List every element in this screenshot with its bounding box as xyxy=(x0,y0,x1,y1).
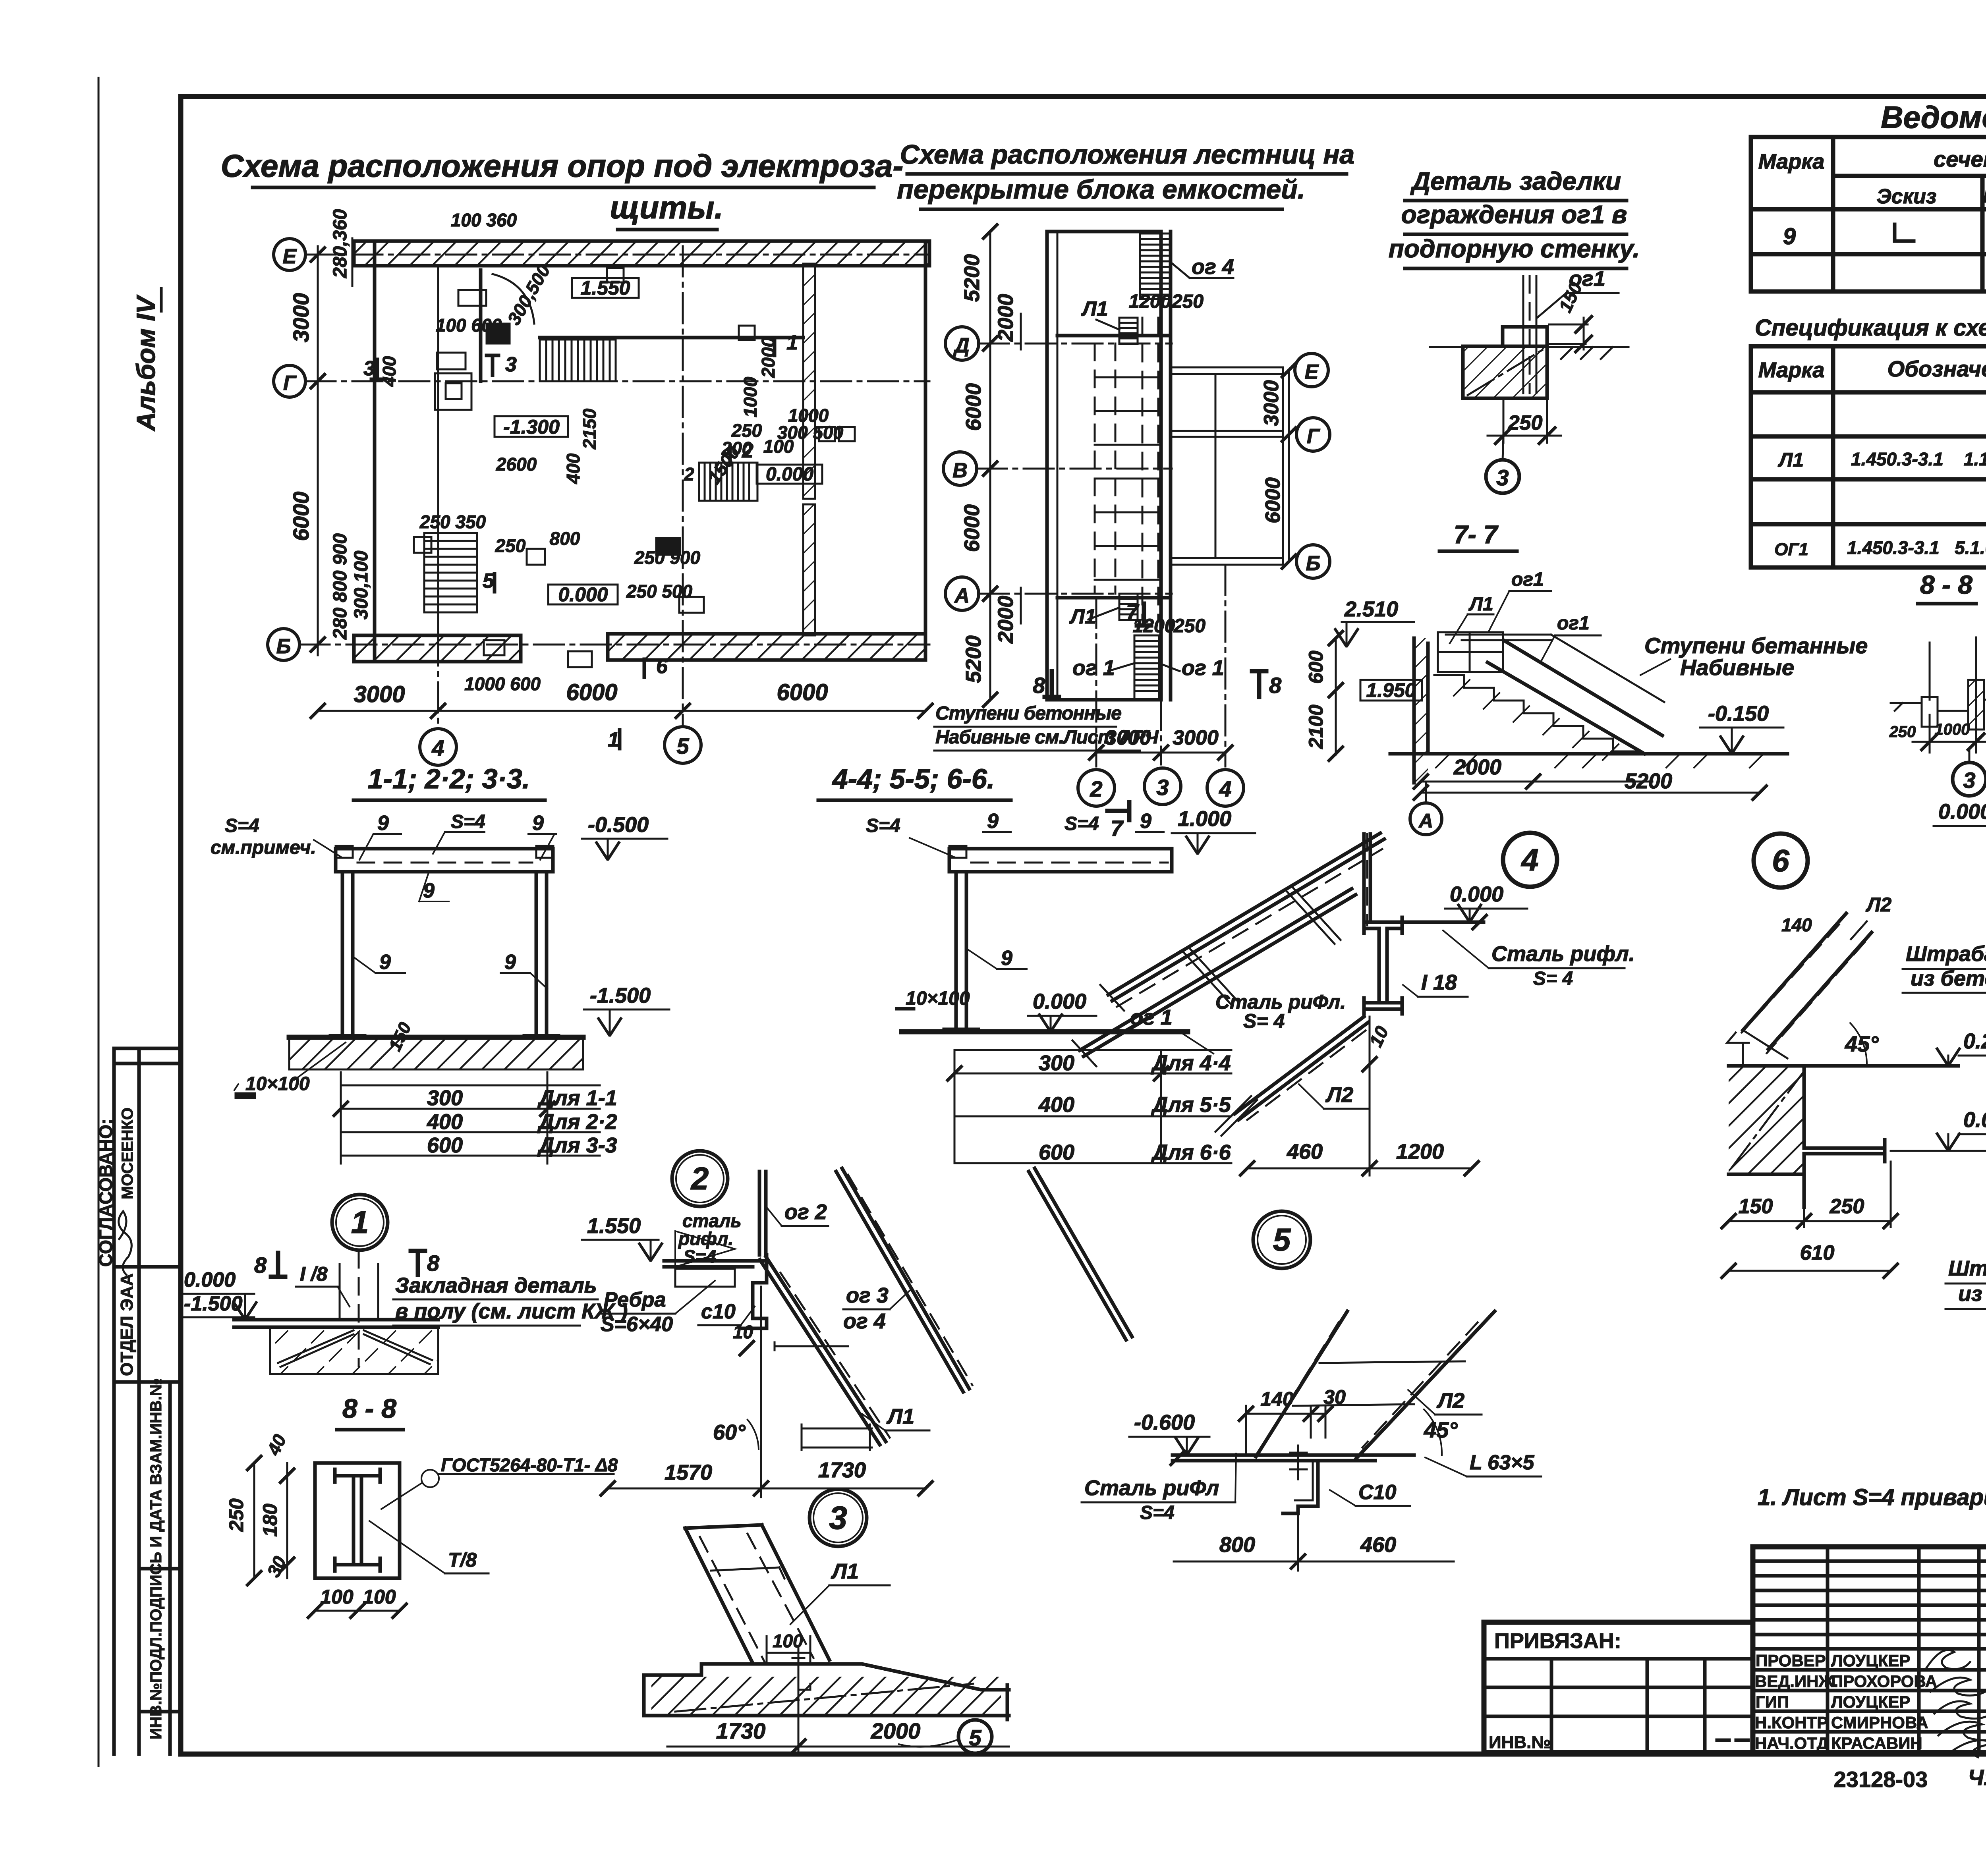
svg-text:Для 4·4: Для 4·4 xyxy=(1151,1051,1231,1075)
section 7-7 bottom dims xyxy=(1413,755,1768,801)
level box 0.000 (right) xyxy=(757,465,822,484)
svg-text:щиты.: щиты. xyxy=(610,190,723,225)
svg-text:600: 600 xyxy=(1305,650,1327,684)
portal frame 2 xyxy=(949,849,1172,1027)
sidebar signature squiggle xyxy=(119,1211,132,1275)
grid bubble Е xyxy=(274,239,305,270)
plan bottom wall right segment xyxy=(608,634,925,660)
section flag 8 left xyxy=(1045,671,1059,697)
anchor legs xyxy=(278,1330,432,1367)
svg-text:5200: 5200 xyxy=(960,254,984,302)
stair stringers xyxy=(1488,640,1662,754)
svg-text:Л1: Л1 xyxy=(1468,594,1493,615)
svg-text:100: 100 xyxy=(320,1586,354,1608)
svg-text:0.200: 0.200 xyxy=(1963,1029,1986,1053)
svg-text:250: 250 xyxy=(495,535,526,556)
left vertical dim 2100 600 xyxy=(1305,630,1344,762)
svg-text:2: 2 xyxy=(684,464,694,484)
ground band hatched xyxy=(289,1038,583,1069)
svg-text:3: 3 xyxy=(1156,775,1169,800)
svg-text:3000: 3000 xyxy=(1173,726,1219,749)
svg-text:ог 3: ог 3 xyxy=(846,1283,889,1307)
floor line right of post xyxy=(1402,921,1484,924)
svg-text:800: 800 xyxy=(1219,1533,1255,1557)
svg-text:9: 9 xyxy=(377,812,389,835)
svg-text:1: 1 xyxy=(351,1204,369,1240)
svg-text:250 500: 250 500 xyxy=(626,581,693,602)
big railing diagonals ог2 ог3 ог4 xyxy=(836,1168,969,1392)
grid bubble Д xyxy=(945,327,979,360)
svg-text:S= 4: S= 4 xyxy=(1243,1010,1285,1032)
svg-text:ИНВ.№: ИНВ.№ xyxy=(1489,1733,1551,1752)
I-beam И18 xyxy=(1364,917,1402,1014)
svg-text:0.000: 0.000 xyxy=(558,583,608,606)
svg-text:S=4: S=4 xyxy=(225,815,259,836)
node circle 4 (large) xyxy=(1503,833,1557,887)
plan tread rungs xyxy=(1095,377,1158,580)
svg-text:ПРИВЯЗАН:: ПРИВЯЗАН: xyxy=(1494,1629,1621,1653)
plan grid bubble 5 xyxy=(665,727,701,763)
svg-text:I /8: I /8 xyxy=(300,1263,328,1285)
svg-text:5200: 5200 xyxy=(1625,769,1672,793)
signatures squiggles xyxy=(1926,1650,1986,1757)
svg-text:30: 30 xyxy=(1323,1386,1346,1408)
pedestal xyxy=(1503,327,1547,346)
top stair ог4 treads xyxy=(1140,234,1171,299)
svg-text:Е: Е xyxy=(283,245,297,268)
vertical axis line xyxy=(760,1287,762,1497)
svg-text:610: 610 xyxy=(1800,1241,1835,1264)
section flag 8 right xyxy=(1252,671,1266,697)
dims left: 40 250 180 30 xyxy=(225,1431,295,1586)
svg-text:Н.КОНТР: Н.КОНТР xyxy=(1755,1713,1828,1732)
svg-text:Б: Б xyxy=(1306,552,1321,575)
svg-text:Схема расположения опор под: Схема расположения опор под электроза- xyxy=(221,148,904,183)
landing lines xyxy=(1057,336,1171,598)
stair plan inner vertical xyxy=(1057,232,1059,700)
plan right boundary xyxy=(924,241,927,660)
plan bottom dim chain xyxy=(310,679,933,719)
dim 10 xyxy=(1365,1023,1393,1050)
vertical label: Альбом IV xyxy=(131,287,161,432)
svg-text:6000: 6000 xyxy=(1262,477,1285,523)
svg-text:250: 250 xyxy=(1889,723,1916,741)
retaining wall block xyxy=(1463,346,1547,398)
railing ог1 above stair xyxy=(1446,635,1664,702)
svg-text:ограждения ог1 в: ограждения ог1 в xyxy=(1401,200,1627,229)
svg-text:перекрытие блока емкостей.: перекрытие блока емкостей. xyxy=(897,174,1305,205)
svg-text:1570: 1570 xyxy=(665,1461,712,1484)
stair B treads (right) xyxy=(699,463,757,501)
I-beam glyph vertical xyxy=(335,1469,380,1571)
svg-text:Л1: Л1 xyxy=(886,1405,914,1428)
svg-text:В: В xyxy=(952,459,968,482)
rung connector between rails xyxy=(1184,948,1237,1005)
step hatch ticks xyxy=(1454,680,1619,760)
svg-text:3: 3 xyxy=(363,357,375,380)
svg-text:ВЕД.ИНЖ.: ВЕД.ИНЖ. xyxy=(1755,1672,1838,1691)
title block inner lines xyxy=(1484,1547,1986,1752)
svg-text:2: 2 xyxy=(742,439,753,462)
svg-text:ог1: ог1 xyxy=(1511,569,1544,590)
dims 1730 2000 xyxy=(667,1652,1009,1755)
svg-text:400: 400 xyxy=(379,356,400,387)
interior wall verticals xyxy=(437,266,439,635)
svg-text:L 63×5: L 63×5 xyxy=(1470,1451,1534,1474)
svg-text:ог 1: ог 1 xyxy=(1130,1006,1173,1029)
dim 150 250 xyxy=(1721,1162,1899,1229)
svg-text:7: 7 xyxy=(1126,599,1140,624)
plate structure xyxy=(664,1261,767,1267)
svg-text:4: 4 xyxy=(1219,776,1231,801)
svg-text:ОТДЕЛ ЭАА: ОТДЕЛ ЭАА xyxy=(117,1273,137,1376)
svg-text:600: 600 xyxy=(1039,1141,1074,1164)
svg-text:0.000: 0.000 xyxy=(184,1268,236,1291)
svg-text:250: 250 xyxy=(1508,411,1543,434)
grid bubble А xyxy=(945,577,979,610)
column caps xyxy=(336,846,553,858)
svg-text:СМИРНОВА: СМИРНОВА xyxy=(1831,1713,1928,1732)
svg-text:3000: 3000 xyxy=(288,293,313,343)
svg-text:2000: 2000 xyxy=(871,1718,921,1743)
anchor cross at floor xyxy=(1290,1446,1307,1479)
svg-text:9: 9 xyxy=(379,951,391,974)
svg-text:300,100: 300,100 xyxy=(351,550,372,620)
svg-text:2000: 2000 xyxy=(994,294,1018,342)
plan bottom wall left segment xyxy=(354,635,521,662)
svg-text:2: 2 xyxy=(1090,776,1102,801)
svg-text:1.000: 1.000 xyxy=(1178,807,1231,831)
svg-text:1000: 1000 xyxy=(740,376,761,417)
right wing of stair plan xyxy=(1171,367,1283,565)
plan small dim texts xyxy=(379,210,844,694)
base plate xyxy=(944,1028,978,1031)
portal frame 1 xyxy=(336,849,553,1033)
svg-text:250: 250 xyxy=(1830,1195,1864,1218)
svg-text:Г: Г xyxy=(283,372,297,395)
svg-text:Ч1: Ч1 xyxy=(1968,1765,1986,1790)
base plates xyxy=(330,1034,558,1038)
dim table under frame 2 xyxy=(954,1050,1231,1163)
svg-text:8: 8 xyxy=(427,1251,440,1276)
svg-text:5: 5 xyxy=(1273,1222,1291,1257)
dim 610 xyxy=(1721,1241,1899,1279)
svg-text:2000: 2000 xyxy=(994,596,1018,644)
grid axis Г xyxy=(305,380,929,382)
sidebar vertical text: СОГЛАСОВАНО xyxy=(95,1119,116,1267)
ground line of section xyxy=(1390,752,1787,756)
square outline xyxy=(315,1463,400,1578)
svg-text:Ведомость элементов.: Ведомость элементов. xyxy=(1881,100,1986,135)
node circle 2 xyxy=(672,1151,728,1206)
grid bubble А below section xyxy=(1410,803,1442,835)
svg-text:2100: 2100 xyxy=(1305,704,1327,749)
small detail 3 posts xyxy=(1930,637,1976,730)
svg-text:2600: 2600 xyxy=(496,454,537,475)
stair plan bottom axes + dims xyxy=(1096,565,1225,766)
svg-text:ПРОХОРОВА: ПРОХОРОВА xyxy=(1831,1672,1937,1691)
svg-text:S=4: S=4 xyxy=(1140,1502,1175,1523)
svg-text:Ступени бетанные: Ступени бетанные xyxy=(1644,633,1868,658)
svg-text:СОГЛАСОВАНО:: СОГЛАСОВАНО: xyxy=(95,1119,116,1267)
svg-text:Марка: Марка xyxy=(1758,150,1825,174)
svg-text:Л2: Л2 xyxy=(1436,1389,1464,1413)
svg-text:280 800 900: 280 800 900 xyxy=(330,533,351,640)
svg-text:1730: 1730 xyxy=(818,1458,866,1482)
svg-text:ПРОВЕР: ПРОВЕР xyxy=(1756,1651,1826,1670)
concrete block xyxy=(1729,1066,1804,1174)
dims 800 460 xyxy=(1174,1513,1454,1571)
svg-text:Сталь риФл: Сталь риФл xyxy=(1084,1476,1219,1500)
svg-text:сечение: сечение xyxy=(1934,147,1986,172)
svg-text:3: 3 xyxy=(1496,465,1509,490)
node circle 3 xyxy=(809,1489,867,1546)
plan right wall lower xyxy=(803,504,815,635)
svg-text:250 350: 250 350 xyxy=(419,511,486,532)
level box -1.300 xyxy=(495,416,568,437)
svg-text:6: 6 xyxy=(1772,843,1789,878)
left sidebar column boxes xyxy=(114,1048,181,1754)
svg-text:0.000: 0.000 xyxy=(1938,800,1986,824)
svg-text:ог 4: ог 4 xyxy=(1192,255,1234,279)
svg-text:Е: Е xyxy=(1305,361,1319,384)
grid bubble Г right xyxy=(1296,418,1330,451)
Л1 hatch block bottom xyxy=(1119,594,1138,620)
anchor bolt at top xyxy=(792,1648,810,1690)
svg-text:400: 400 xyxy=(1038,1093,1074,1117)
svg-text:8: 8 xyxy=(254,1253,267,1278)
svg-text:9: 9 xyxy=(1783,224,1796,249)
svg-text:100 360: 100 360 xyxy=(451,210,517,230)
svg-text:6000: 6000 xyxy=(777,679,828,705)
floor double line xyxy=(1173,1455,1414,1461)
plan section flags xyxy=(371,338,775,677)
svg-text:4-4; 5-5; 6-6.: 4-4; 5-5; 6-6. xyxy=(832,763,995,794)
svg-text:Л1: Л1 xyxy=(1778,449,1804,471)
svg-text:300: 300 xyxy=(427,1086,463,1110)
svg-text:1: 1 xyxy=(786,331,798,354)
svg-text:1. Лист S=4 приварить по пери: 1. Лист S=4 приварить по периметру для ф… xyxy=(1758,1484,1986,1510)
dim table under frame 1 xyxy=(341,1072,600,1164)
floor line xyxy=(234,1320,438,1327)
landing slab xyxy=(1438,632,1503,672)
svg-text:5: 5 xyxy=(676,733,689,759)
svg-text:Б: Б xyxy=(276,635,291,658)
level box 0.000 (center low) xyxy=(548,585,618,604)
svg-text:460: 460 xyxy=(1360,1533,1396,1557)
svg-text:Л2: Л2 xyxy=(1325,1083,1353,1107)
node circle 3 small xyxy=(1953,762,1986,796)
svg-text:8: 8 xyxy=(1269,673,1282,698)
interior partition under Г xyxy=(479,270,483,381)
section flag 7 top xyxy=(1137,604,1151,625)
svg-text:0.000: 0.000 xyxy=(766,464,813,485)
svg-text:600: 600 xyxy=(427,1133,463,1157)
ladder rung xyxy=(711,1567,784,1579)
table 1 grid xyxy=(1751,137,1986,291)
ladder dashed strips in plan xyxy=(1095,318,1158,620)
dims 460 1200 xyxy=(1239,1140,1480,1176)
svg-text:10: 10 xyxy=(733,1322,753,1342)
svg-text:8: 8 xyxy=(1033,673,1045,698)
svg-text:S=6×40: S=6×40 xyxy=(601,1313,673,1336)
stair plan main outline xyxy=(1047,232,1171,700)
svg-text:Л1: Л1 xyxy=(831,1559,859,1583)
plan grid bubble 4 xyxy=(420,729,456,765)
rail end ticks xyxy=(1743,921,1867,1058)
svg-text:1.550: 1.550 xyxy=(587,1214,641,1238)
svg-text:-1.500: -1.500 xyxy=(590,984,651,1007)
svg-text:250: 250 xyxy=(225,1498,247,1532)
floor line xyxy=(1729,1064,1958,1068)
svg-text:9: 9 xyxy=(1140,810,1151,833)
svg-text:280,360: 280,360 xyxy=(330,209,351,278)
embedded post xyxy=(340,1251,378,1366)
dims bottom 100 100 xyxy=(307,1586,408,1619)
svg-text:Для 6·6: Для 6·6 xyxy=(1151,1141,1231,1164)
svg-text:250: 250 xyxy=(1173,616,1206,637)
svg-text:Штраба 300×300×300 (h): Штраба 300×300×300 (h) xyxy=(1906,942,1986,966)
svg-text:7: 7 xyxy=(1111,816,1124,841)
grid axis Б xyxy=(299,644,929,646)
svg-text:3: 3 xyxy=(829,1500,847,1536)
svg-text:Ступени бетонные: Ступени бетонные xyxy=(935,703,1121,724)
svg-text:9: 9 xyxy=(532,812,544,835)
svg-text:ог 1: ог 1 xyxy=(1072,656,1115,680)
svg-text:150: 150 xyxy=(1739,1195,1773,1218)
svg-text:Для 1-1: Для 1-1 xyxy=(537,1086,617,1110)
svg-text:0.000: 0.000 xyxy=(1450,882,1503,906)
svg-text:1.450.3-3.1 1.1.4.2.1: 1.450.3-3.1 1.1.4.2.1 xyxy=(1851,449,1986,469)
svg-text:10×100: 10×100 xyxy=(906,988,970,1009)
retaining wall in section xyxy=(1414,638,1428,783)
concrete block hatched xyxy=(270,1327,438,1374)
svg-text:9: 9 xyxy=(504,951,516,974)
svg-text:180: 180 xyxy=(259,1504,281,1537)
svg-text:5: 5 xyxy=(969,1725,981,1750)
svg-text:300: 300 xyxy=(1039,1051,1074,1075)
channel profile step xyxy=(743,1255,767,1328)
svg-text:Ребра: Ребра xyxy=(604,1288,666,1311)
node circle 3 xyxy=(1486,460,1519,493)
svg-text:2150: 2150 xyxy=(579,408,600,450)
svg-text:8 - 8: 8 - 8 xyxy=(342,1393,396,1424)
dim 150 vertical xyxy=(385,1019,415,1054)
svg-text:4: 4 xyxy=(1520,842,1538,877)
svg-text:6000: 6000 xyxy=(288,492,313,541)
svg-text:ЛОУЦКЕР: ЛОУЦКЕР xyxy=(1831,1651,1911,1670)
svg-text:Эскиз: Эскиз xyxy=(1877,185,1937,208)
svg-text:-1.300: -1.300 xyxy=(503,416,560,438)
channel С10 under floor xyxy=(1283,1461,1318,1513)
grid bubble Е right xyxy=(1295,353,1328,387)
svg-text:140: 140 xyxy=(1781,915,1812,935)
grid bubble 4 xyxy=(1207,770,1244,806)
grid axis Е xyxy=(305,254,929,256)
svg-text:Набивные: Набивные xyxy=(1680,655,1794,680)
svg-text:1200: 1200 xyxy=(1129,291,1171,312)
svg-text:Схема расположения лестниц на: Схема расположения лестниц на xyxy=(900,139,1354,170)
plan electro-panel small rectangles xyxy=(414,268,855,667)
svg-text:-0.500: -0.500 xyxy=(588,813,649,837)
ог1 post xyxy=(1523,276,1536,393)
plan left wall line xyxy=(373,241,377,659)
svg-text:1.450.3-3.1 5.1.0.1.0-01: 1.450.3-3.1 5.1.0.1.0-01 xyxy=(1847,537,1986,558)
svg-text:2.510: 2.510 xyxy=(1344,597,1398,621)
svg-text:ог 1: ог 1 xyxy=(1182,656,1224,680)
dim 250 below wall xyxy=(1488,398,1561,444)
svg-text:Для 5·5: Для 5·5 xyxy=(1151,1093,1231,1117)
grid bubble 2 xyxy=(1078,770,1115,806)
svg-text:6: 6 xyxy=(656,655,668,678)
svg-text:А: А xyxy=(954,584,970,607)
stair A treads (upper middle) xyxy=(540,340,616,381)
svg-text:ог 2: ог 2 xyxy=(784,1200,827,1224)
leader circle 5 xyxy=(958,1720,992,1753)
svg-text:3000: 3000 xyxy=(354,681,405,707)
railing diagonals ог1 xyxy=(1108,833,1384,1001)
svg-text:НАЧ.ОТД: НАЧ.ОТД xyxy=(1755,1734,1829,1752)
plan right wall upper xyxy=(803,264,815,499)
section flag 7 bottom xyxy=(1107,802,1129,820)
svg-text:0.000: 0.000 xyxy=(1033,990,1086,1013)
grid bubble 3 xyxy=(1144,768,1181,805)
svg-text:1-1; 2·2; 3·3.: 1-1; 2·2; 3·3. xyxy=(368,763,530,794)
svg-text:ОГ1: ОГ1 xyxy=(1774,540,1808,559)
svg-text:Спецификация к схеме расположе: Спецификация к схеме расположения лестни… xyxy=(1755,315,1986,341)
sidebar vertical text: ОТДЕЛ ЭАА xyxy=(117,1273,137,1376)
svg-text:2000: 2000 xyxy=(1453,755,1501,779)
podium concrete xyxy=(644,1664,1009,1716)
signature names column xyxy=(1755,1651,1937,1752)
right wing dim chain xyxy=(1260,362,1297,569)
secondary dim col 280/360 xyxy=(330,209,372,640)
svg-text:60°: 60° xyxy=(713,1421,746,1444)
ground line thick xyxy=(902,1029,1188,1035)
grid bubble Б right xyxy=(1296,545,1330,578)
svg-text:S=4: S=4 xyxy=(866,815,900,836)
svg-text:23128-03: 23128-03 xyxy=(1834,1767,1928,1792)
svg-text:МОСЕЕНКО: МОСЕЕНКО xyxy=(119,1108,136,1199)
grid bubble Б xyxy=(268,629,299,660)
grid bubble В xyxy=(943,452,977,485)
svg-text:Штраба 200×300×300(h): Штраба 200×300×300(h) xyxy=(1948,1256,1986,1280)
svg-text:с10: с10 xyxy=(701,1300,736,1323)
node circle 5 xyxy=(1253,1211,1310,1268)
wall vertical xyxy=(759,1172,766,1255)
svg-text:Марка: Марка xyxy=(1758,358,1825,382)
svg-text:Поз.: Поз. xyxy=(1983,187,1986,207)
svg-text:Л1: Л1 xyxy=(1081,297,1108,320)
svg-text:І 18: І 18 xyxy=(1421,971,1457,994)
svg-text:0.000: 0.000 xyxy=(1963,1108,1986,1132)
svg-text:Д: Д xyxy=(953,334,970,357)
svg-text:ИНВ.№ПОДЛ.ПОДПИСЬ И ДАТА ВЗАМ.: ИНВ.№ПОДЛ.ПОДПИСЬ И ДАТА ВЗАМ.ИНВ.№ xyxy=(147,1378,165,1739)
svg-text:400: 400 xyxy=(427,1110,463,1134)
dims 1570 1730 xyxy=(600,1458,933,1496)
sidebar vertical text: ИНВ.№ПОДЛ ПОДПИСЬ И ДАТА ВЗАМ ИНВ.№ xyxy=(147,1378,165,1739)
level box 1.950 xyxy=(1360,680,1422,701)
svg-text:400: 400 xyxy=(563,453,583,484)
stair rungs xyxy=(775,1342,872,1450)
svg-text:1: 1 xyxy=(608,728,619,751)
vertical thin axis xyxy=(1369,1017,1371,1175)
svg-text:3000: 3000 xyxy=(1260,380,1283,426)
svg-text:5200: 5200 xyxy=(962,635,985,683)
sidebar vertical text: МОСЕЕНКО xyxy=(119,1108,136,1199)
vertical post xyxy=(1364,834,1370,921)
svg-text:6000: 6000 xyxy=(566,679,617,705)
